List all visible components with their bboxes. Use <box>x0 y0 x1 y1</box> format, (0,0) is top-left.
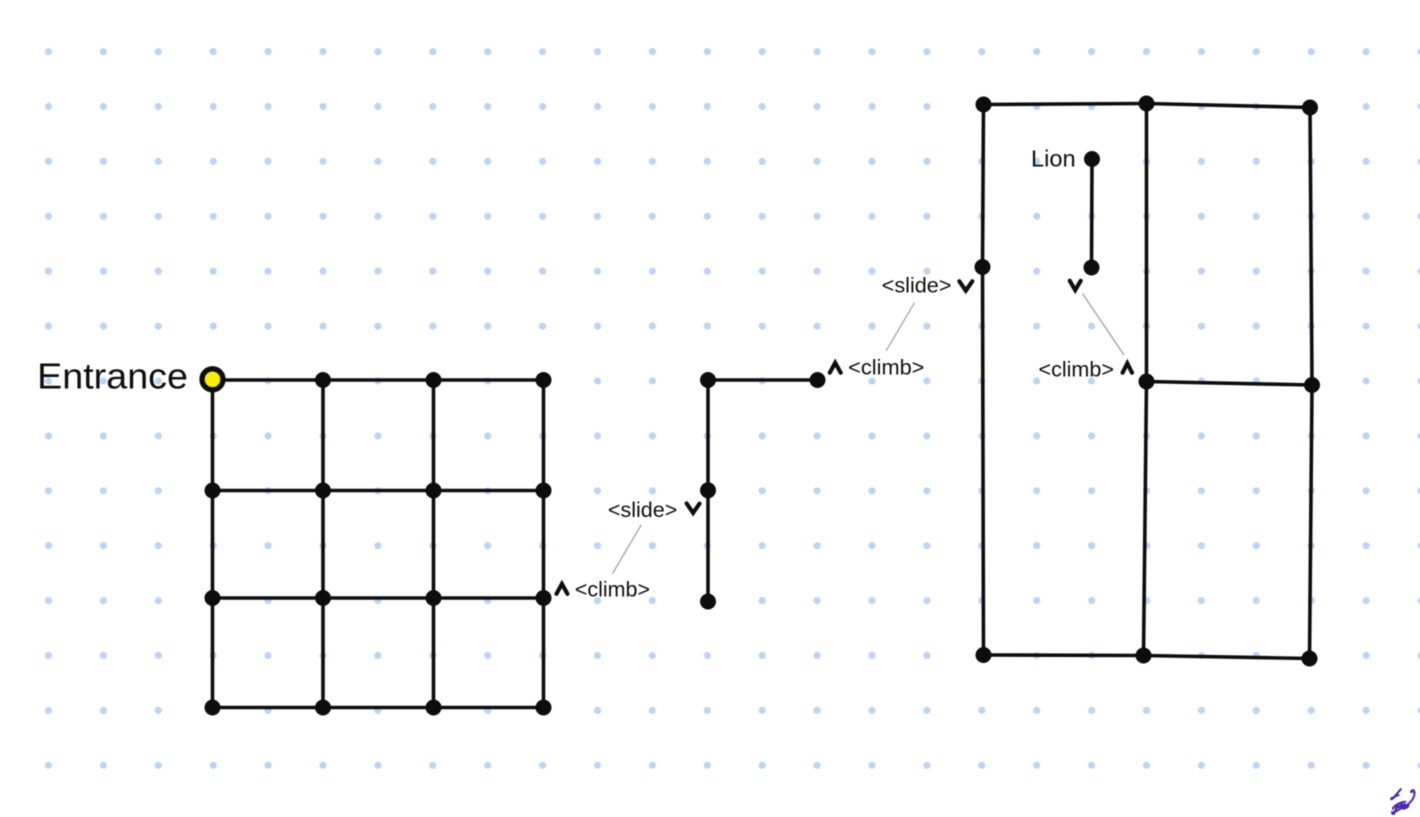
svg-text:Entrance: Entrance <box>37 356 188 397</box>
wire right right edge <box>1310 108 1313 659</box>
wire right top edge <box>984 104 1311 108</box>
right structure nodes <box>975 96 1321 667</box>
slide chevron 1 <box>959 281 972 290</box>
svg-text:<slide>: <slide> <box>882 275 952 298</box>
wire grid col1 <box>211 380 215 708</box>
middle path wires <box>708 380 818 602</box>
svg-text:<climb>: <climb> <box>575 579 650 602</box>
svg-text:Lion: Lion <box>1031 146 1076 172</box>
left playground grid wires <box>213 380 544 708</box>
middle path nodes <box>700 372 826 610</box>
slide chevron 3 (below lion) <box>1070 281 1081 290</box>
wire grid row3 <box>213 596 544 600</box>
entrance node (yellow) <box>202 369 223 390</box>
wire grid row1 <box>213 378 544 382</box>
wire mid vertical <box>706 380 710 602</box>
right structure wires <box>983 104 1313 659</box>
climb chevron 3 <box>1123 363 1132 372</box>
wire right bottom edge <box>984 655 1310 659</box>
wire grid row2 <box>213 489 544 493</box>
svg-text:<slide>: <slide> <box>608 499 677 522</box>
wire mid horizontal <box>708 378 818 382</box>
leader line 3 <box>1083 294 1125 356</box>
wire right middle vertical <box>1144 104 1147 656</box>
slide chevron 2 <box>687 503 700 513</box>
wire lion <box>1090 159 1094 268</box>
wire grid row4 <box>213 706 544 710</box>
wire grid col2 <box>321 380 325 708</box>
svg-text:<climb>: <climb> <box>1039 358 1114 381</box>
left grid nodes <box>205 372 552 716</box>
svg-text:<climb>: <climb> <box>848 357 924 380</box>
wire right middle horizontal <box>1147 382 1313 386</box>
climb chevron 1 <box>830 363 841 373</box>
signature squiggle <box>1391 789 1414 814</box>
climb chevron 2 <box>557 584 568 594</box>
leader line 2 <box>612 525 641 574</box>
wire grid col3 <box>432 380 436 708</box>
leader line 1 <box>886 303 914 351</box>
wire grid col4 <box>542 380 546 708</box>
wire right left edge <box>983 105 984 656</box>
